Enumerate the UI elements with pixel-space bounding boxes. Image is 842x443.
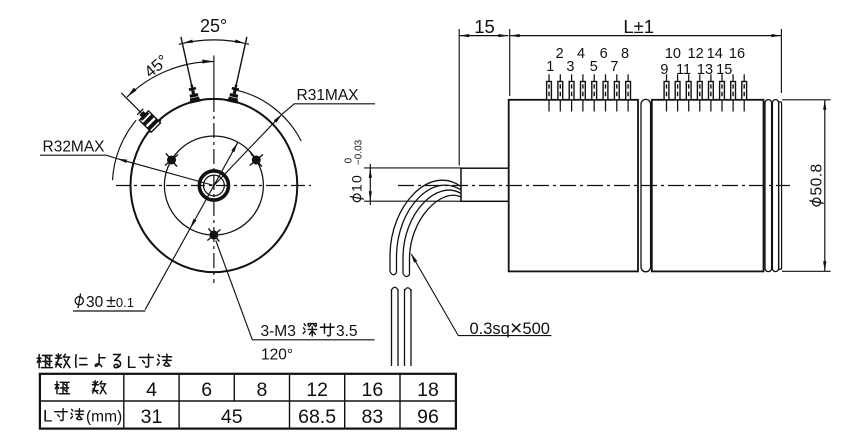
svg-text:31: 31 xyxy=(141,406,163,428)
body section 2 xyxy=(652,100,764,272)
R32 max swing arc xyxy=(113,120,137,180)
svg-text:8: 8 xyxy=(621,46,629,62)
ring strip A xyxy=(765,100,772,272)
svg-text:45: 45 xyxy=(221,406,243,428)
phi10 label (rotated) xyxy=(343,139,364,201)
L±1 dimension xyxy=(510,35,782,37)
joint strip middle xyxy=(641,99,651,271)
svg-text:16: 16 xyxy=(729,46,745,62)
shaft rectangle xyxy=(461,168,509,201)
svg-text:R31MAX: R31MAX xyxy=(297,87,360,104)
svg-text:6: 6 xyxy=(600,46,608,62)
svg-text:50.8: 50.8 xyxy=(808,163,825,195)
svg-text:15: 15 xyxy=(474,16,495,37)
svg-text:25°: 25° xyxy=(200,16,227,36)
motor body outer circle xyxy=(131,99,298,272)
cable lower segment caps xyxy=(392,287,412,290)
15 dimension xyxy=(459,35,508,37)
svg-text:10: 10 xyxy=(665,46,681,62)
end plate xyxy=(779,102,782,270)
45deg label (rotated) xyxy=(141,52,172,82)
25deg dimension arc xyxy=(179,40,249,44)
svg-text:4: 4 xyxy=(146,379,157,401)
body section 1 xyxy=(509,100,638,272)
25deg arrowheads xyxy=(182,40,193,44)
svg-text:2: 2 xyxy=(556,46,564,62)
terminal post left of 25deg pair xyxy=(175,36,201,104)
svg-text:120°: 120° xyxy=(261,347,293,364)
25deg extension line left xyxy=(181,37,192,87)
svg-text:(mm): (mm) xyxy=(86,409,122,426)
svg-text:18: 18 xyxy=(417,379,439,401)
shaft inner circle xyxy=(204,175,225,196)
connector pins (1-16) xyxy=(547,74,552,111)
svg-text:16: 16 xyxy=(362,379,384,401)
45deg arrowheads xyxy=(202,60,214,64)
phi30 label underline xyxy=(73,310,145,312)
svg-text:83: 83 xyxy=(362,406,384,428)
screw left (M3 tapped hole) xyxy=(165,153,178,166)
svg-text:3.5: 3.5 xyxy=(336,323,358,340)
R31 max swing arc xyxy=(233,89,302,141)
svg-text:45°: 45° xyxy=(141,52,172,82)
svg-text:12: 12 xyxy=(688,46,704,62)
svg-text:5: 5 xyxy=(590,59,598,75)
R32MAX leader line xyxy=(40,155,214,185)
svg-text:R32MAX: R32MAX xyxy=(43,139,106,156)
svg-text:10: 10 xyxy=(349,174,365,192)
svg-text:68.5: 68.5 xyxy=(298,406,336,428)
svg-text:13: 13 xyxy=(697,62,713,78)
phi50.8 dimension xyxy=(782,99,831,101)
svg-text:L: L xyxy=(127,352,137,372)
svg-text:3-M3: 3-M3 xyxy=(261,323,296,340)
svg-text:9: 9 xyxy=(660,62,668,78)
svg-text:14: 14 xyxy=(707,46,723,62)
katakana sa xyxy=(320,324,334,336)
centerline horizontal (side view) xyxy=(398,185,790,187)
cable break caps upper segment xyxy=(390,272,410,277)
svg-text:0.3sq×500: 0.3sq×500 xyxy=(470,316,550,340)
svg-text:96: 96 xyxy=(417,406,439,428)
terminal post right of 25deg pair xyxy=(227,36,253,104)
bolt circle xyxy=(164,136,263,235)
kanji fuka (depth) xyxy=(303,324,316,336)
screw bottom (M3 tapped hole) xyxy=(207,228,220,241)
table grid xyxy=(40,374,456,429)
shaft boss thick ring xyxy=(199,171,228,200)
terminal lug at 45deg xyxy=(115,87,162,134)
phi50.8 label (rotated) xyxy=(808,163,825,206)
svg-text:15: 15 xyxy=(716,62,732,78)
phi30 label xyxy=(75,297,83,305)
svg-text:7: 7 xyxy=(610,59,618,75)
25deg extension line right xyxy=(236,37,247,87)
3-M3 leader line xyxy=(216,241,375,340)
svg-text:3: 3 xyxy=(566,59,574,75)
centerline horizontal (front view) xyxy=(116,185,311,187)
svg-text:L±1: L±1 xyxy=(623,16,654,37)
svg-text:0: 0 xyxy=(343,157,354,163)
phi30 dimension line across bolt circle xyxy=(145,142,238,310)
table title: kyokusuu ni yoru L sunpou xyxy=(37,354,52,367)
svg-text:6: 6 xyxy=(201,379,212,401)
ring strip B xyxy=(772,100,778,272)
0.3sq×500 leader xyxy=(412,255,552,336)
screw right (M3 tapped hole) xyxy=(250,153,263,166)
svg-text:8: 8 xyxy=(256,379,267,401)
svg-text:1: 1 xyxy=(546,59,554,75)
cable bundle lower segment xyxy=(391,289,393,366)
svg-text:30±0.1: 30±0.1 xyxy=(86,291,134,311)
svg-text:12: 12 xyxy=(306,379,328,401)
svg-text:−0.03: −0.03 xyxy=(354,139,365,165)
table header: kyoku / suu xyxy=(55,381,69,393)
phi10 dimension xyxy=(364,167,461,169)
svg-text:4: 4 xyxy=(577,46,585,62)
centerline vertical (front view) xyxy=(213,56,215,98)
svg-text:11: 11 xyxy=(676,62,691,78)
45deg extension line at 135deg xyxy=(121,93,140,112)
cable bundle curved section xyxy=(390,180,461,271)
R31MAX leader line xyxy=(214,104,375,186)
45deg dimension arc xyxy=(127,62,214,98)
svg-text:L: L xyxy=(43,407,52,426)
